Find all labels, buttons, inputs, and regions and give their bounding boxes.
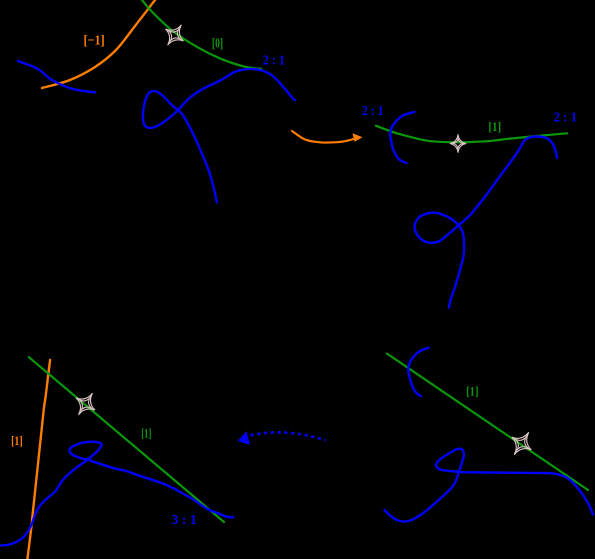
upper-right blue arc	[390, 112, 414, 163]
bottom-left green section line [1]	[29, 357, 224, 522]
svg-text:[1]: [1]	[466, 383, 478, 398]
svg-text:[−1]: [−1]	[84, 34, 105, 49]
sparkle marker S1	[159, 19, 191, 51]
upper-right big blue curve with loop	[415, 136, 557, 307]
bottom-right green section line [1]	[387, 354, 588, 491]
bottom-left blue curve with loop	[0, 442, 234, 546]
top-left fibration: orange section curve [-1]	[42, 0, 155, 88]
svg-text:2 : 1: 2 : 1	[554, 110, 577, 125]
svg-text:2 : 1: 2 : 1	[263, 53, 285, 68]
bottom-right blue curve with loop	[385, 449, 594, 522]
orange arrow head	[353, 133, 363, 142]
top-left big blue curve with loop	[143, 69, 295, 202]
svg-text:[1]: [1]	[141, 425, 151, 440]
svg-text:[1]: [1]	[11, 433, 23, 448]
svg-text:2 : 1: 2 : 1	[362, 104, 384, 119]
sparkle marker S4	[69, 387, 102, 421]
dashed blue arrow tail	[251, 432, 326, 440]
bottom-left orange section line [1]	[27, 360, 50, 559]
sparkle marker S3	[504, 426, 538, 461]
svg-text:[1]: [1]	[488, 119, 501, 134]
sparkle marker S2	[450, 134, 466, 152]
upper-right green section curve [1]	[376, 126, 567, 143]
dashed blue arrow head	[238, 431, 250, 445]
top-left green section curve [0]	[142, 0, 261, 69]
svg-text:3 : 1: 3 : 1	[172, 513, 197, 528]
svg-text:[0]: [0]	[212, 36, 223, 51]
bottom-right blue arc	[408, 348, 428, 396]
top-left small blue curve	[18, 61, 95, 92]
orange arrow tail	[292, 131, 356, 143]
